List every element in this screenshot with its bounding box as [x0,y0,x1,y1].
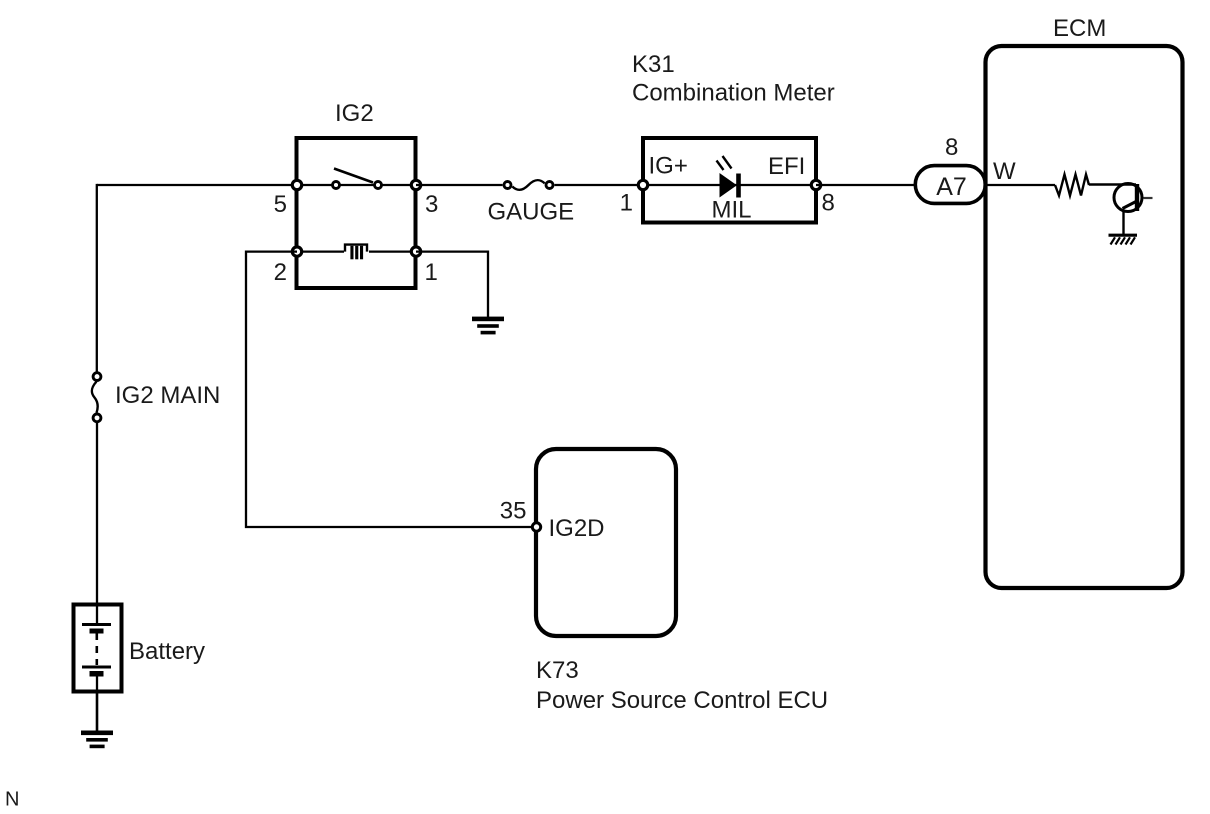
svg-text:A7: A7 [936,173,967,201]
IG2 switch box [297,138,416,288]
wire: IG2 pin 1 to ground [416,252,488,317]
ground: IG2 pin 1 earth ground [472,317,504,335]
switch contact right [375,182,382,189]
svg-text:K73: K73 [536,657,579,684]
svg-text:8: 8 [945,134,958,161]
svg-text:Combination Meter: Combination Meter [632,80,835,107]
wire: battery to ground [96,691,99,731]
fuse IG2 MAIN [92,373,101,422]
coil (ignition switch solenoid) [345,245,367,260]
ground: battery earth ground [81,731,113,749]
wire: switch row inside IG2 (5 to 3) [297,184,416,186]
fuse GAUGE [504,180,553,190]
svg-text:ECM: ECM [1053,15,1106,42]
node: K73 pin 35 [532,523,540,531]
combination meter box K31 [643,138,816,223]
node: IG2 pin 2 [292,247,301,256]
svg-text:8: 8 [822,190,835,217]
battery [74,604,122,692]
switch contact left [333,182,340,189]
node: IG2 pin 5 [292,180,301,189]
svg-text:W: W [993,158,1016,185]
wire: coil row inside IG2 (2 to 1) [297,250,416,252]
wire: IG2 pin 2 to K73 pin 35 [246,252,531,527]
LED MIL diode [717,156,741,198]
wire: meter pin 8 to connector A7 [816,184,914,186]
wire: meter internal row [642,184,816,186]
svg-text:IG2: IG2 [335,100,374,127]
svg-text:Power Source Control ECU: Power Source Control ECU [536,687,828,714]
svg-text:IG2 MAIN: IG2 MAIN [115,382,220,409]
svg-text:IG+: IG+ [649,153,688,180]
node: meter pin 8 [811,180,820,189]
node: meter pin 1 [638,180,647,189]
node: IG2 pin 1 [411,247,420,256]
K73 power source control ECU box [536,449,676,636]
ground: transistor emitter body ground [1109,235,1138,244]
node: IG2 pin 3 [411,180,420,189]
wire: battery positive feed, top horizontal run to IG2 pin 5 [97,184,297,186]
resistor (MIL driver) [1055,175,1089,196]
svg-text:2: 2 [274,259,287,286]
wire: fuse to battery [96,423,98,604]
wire: GAUGE fuse to combination meter pin 1 [555,184,643,186]
svg-text:35: 35 [500,498,527,525]
svg-text:1: 1 [620,190,633,217]
svg-text:3: 3 [425,191,438,218]
wire: resistor to transistor collector [1089,183,1136,185]
wire: connector A7 into ECM to resistor [984,184,1055,186]
ECM box [986,46,1183,588]
svg-text:1: 1 [425,259,438,286]
connector A7 [915,166,985,204]
svg-text:Battery: Battery [129,638,205,665]
svg-text:IG2D: IG2D [549,515,605,542]
svg-text:N: N [5,789,19,811]
svg-text:MIL: MIL [712,197,752,224]
svg-text:5: 5 [274,191,287,218]
wire: left vertical drop to IG2 MAIN fuse [96,184,98,372]
svg-text:EFI: EFI [768,153,805,180]
svg-text:K31: K31 [632,51,675,78]
svg-text:GAUGE: GAUGE [488,199,575,226]
transistor (MIL driver) [1114,184,1153,235]
wire: IG2 pin 3 to GAUGE fuse [416,184,503,186]
switch blade [334,169,373,183]
